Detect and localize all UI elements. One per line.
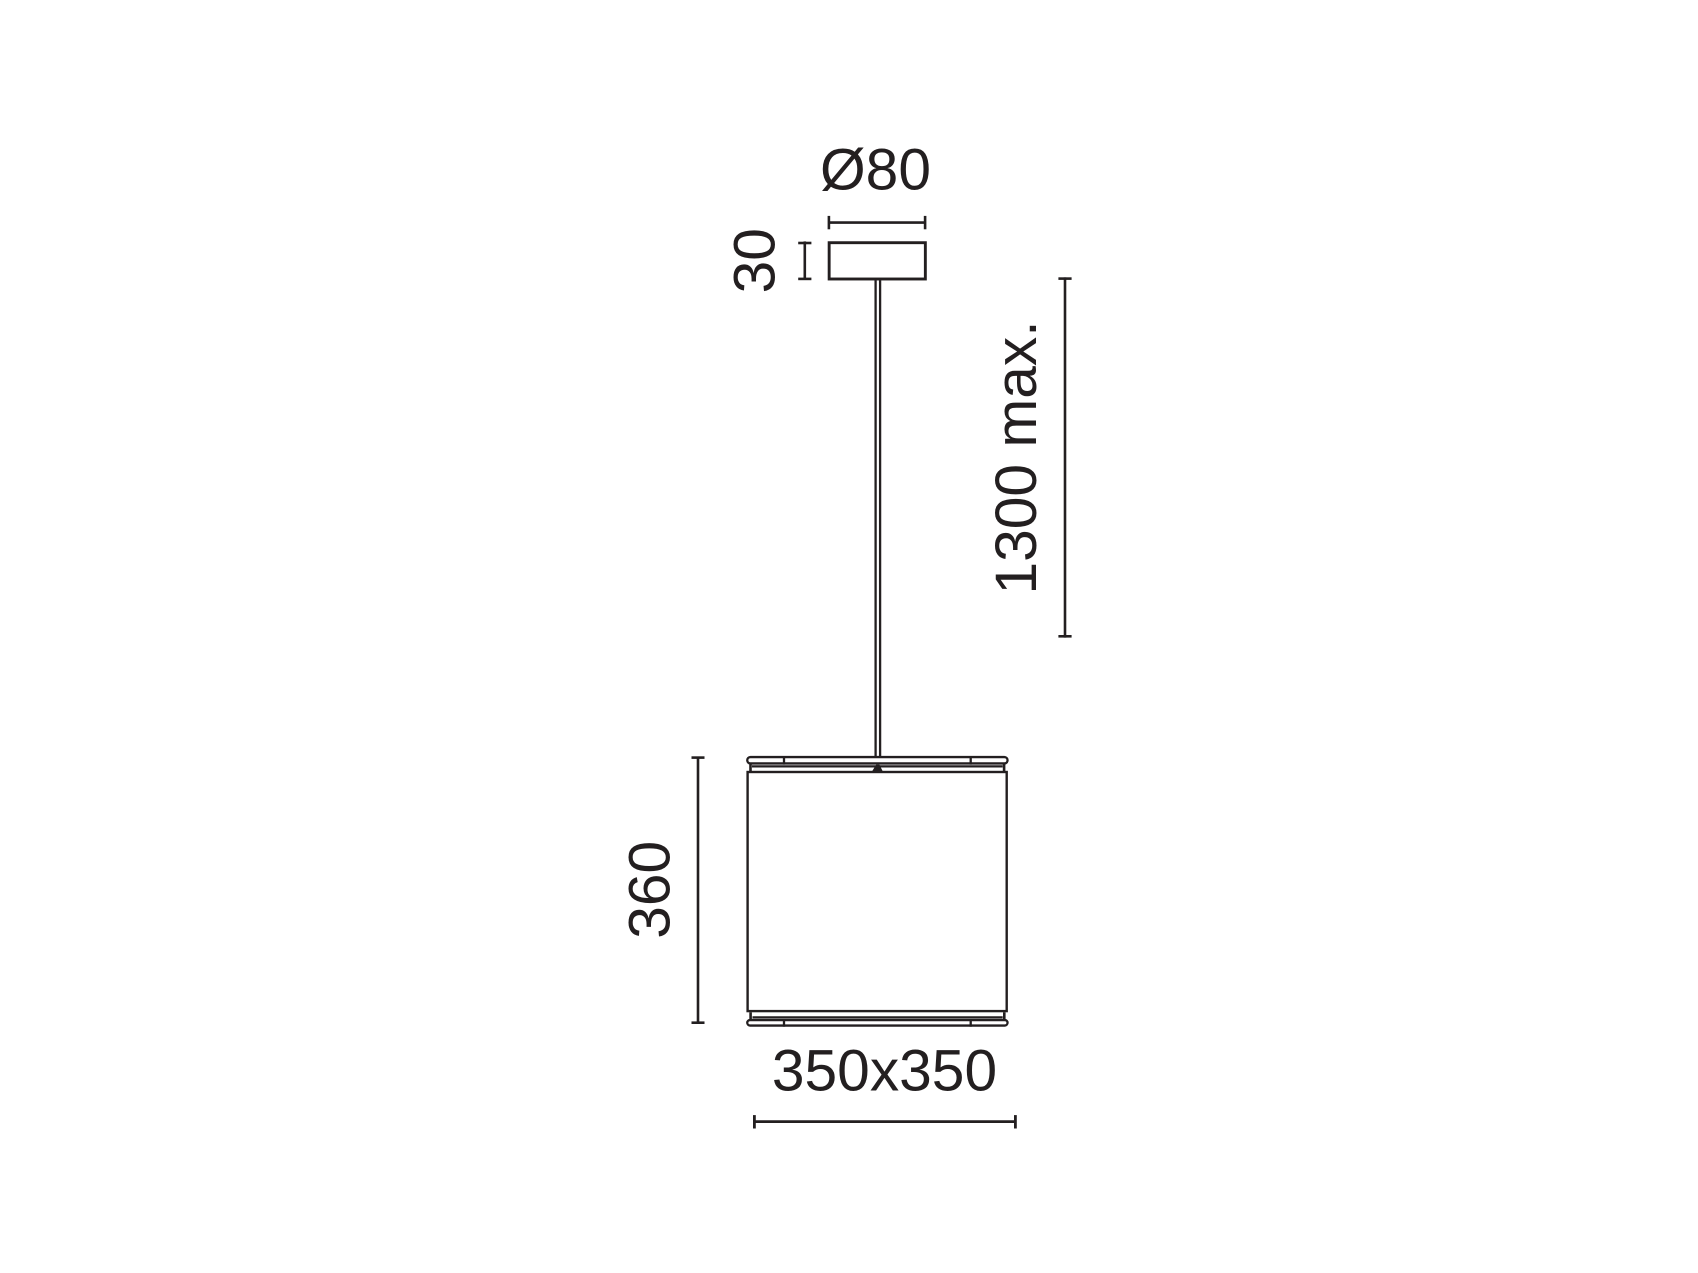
svg-text:1300 max.: 1300 max. [984,320,1049,594]
svg-text:30: 30 [722,228,787,293]
bottom left connector [749,1012,752,1019]
top left connector [749,765,752,772]
bottom rim seam tick right [970,1019,972,1027]
shade bottom rim [747,1020,1007,1026]
bottom ring line [753,1016,1003,1018]
dimension line Ø80 [829,216,925,229]
wire cable (double line) [876,280,881,757]
svg-text:360: 360 [618,841,683,939]
rim seam tick left [783,756,785,765]
svg-text:350x350: 350x350 [772,1039,997,1104]
shade body [748,772,1007,1011]
suspension triangle [871,765,883,773]
bottom right connector [1003,1012,1006,1019]
top ring line [752,765,1003,767]
dimension line 1300 max. [1058,277,1071,637]
dimension line 350x350 [754,1115,1015,1128]
dimension line 360 [692,757,705,1024]
canopy [829,243,925,279]
bottom rim seam tick left [783,1019,785,1027]
svg-text:Ø80: Ø80 [820,138,931,203]
rim seam tick right [970,756,972,765]
top right connector [1003,765,1006,772]
dimension line 30 [798,241,811,279]
shade top rim [747,757,1007,763]
